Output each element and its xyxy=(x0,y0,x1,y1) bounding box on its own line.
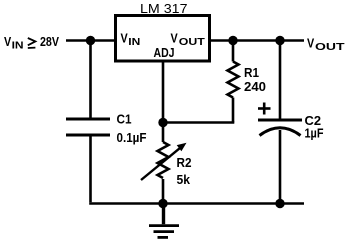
svg-text:R2: R2 xyxy=(177,155,192,170)
capacitor C2 xyxy=(258,120,302,136)
junction C2 top xyxy=(275,36,284,45)
regulator U1 LM317 body xyxy=(116,16,210,62)
svg-text:C1: C1 xyxy=(117,112,132,127)
svg-text:V: V xyxy=(307,36,314,51)
wire VOUT rail xyxy=(209,39,304,42)
svg-text:240: 240 xyxy=(244,79,266,94)
junction R1 top xyxy=(228,36,237,45)
svg-text:1µF: 1µF xyxy=(305,125,324,140)
wire input to regulator xyxy=(66,39,116,42)
wire bottom rail xyxy=(89,202,304,205)
wire C2 bottom to rail xyxy=(279,130,282,204)
svg-text:LM 317: LM 317 xyxy=(140,1,188,16)
pin VOUT label xyxy=(171,31,205,49)
junction input node xyxy=(86,36,95,45)
svg-text:OUT: OUT xyxy=(179,37,205,48)
junction R2 bottom xyxy=(158,199,167,208)
svg-text:R1: R1 xyxy=(244,65,259,80)
pin VIN label xyxy=(121,31,141,49)
resistor R1 xyxy=(228,41,239,123)
svg-text:V: V xyxy=(121,31,128,46)
wire ADJ pin down xyxy=(162,61,165,123)
potentiometer R2 xyxy=(141,123,187,204)
ground xyxy=(149,204,179,238)
svg-text:5k: 5k xyxy=(177,172,191,187)
svg-text:V: V xyxy=(171,31,178,46)
polarity plus of C2 xyxy=(258,103,271,115)
capacitor C1 xyxy=(66,119,110,135)
svg-text:0.1µF: 0.1µF xyxy=(117,130,147,145)
junction ADJ node xyxy=(158,118,167,127)
svg-text:ADJ: ADJ xyxy=(154,45,175,60)
svg-text:OUT: OUT xyxy=(315,42,345,53)
svg-text:IN: IN xyxy=(12,40,24,52)
wire ADJ node to R1 bottom xyxy=(163,121,234,124)
svg-text:28V: 28V xyxy=(40,34,59,49)
wire C1 bottom to ground rail xyxy=(89,135,92,202)
svg-text:IN: IN xyxy=(128,36,140,48)
wire input branch down to C1 xyxy=(89,41,92,119)
junction C2 bottom xyxy=(275,199,284,208)
svg-text:V: V xyxy=(4,34,11,49)
node VIN input label xyxy=(4,34,59,52)
node VOUT output label xyxy=(307,36,345,53)
wire C2 branch from rail xyxy=(279,41,282,120)
